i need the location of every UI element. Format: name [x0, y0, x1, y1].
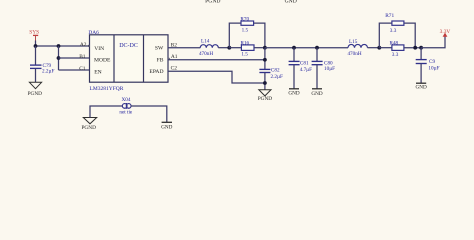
- svg-text:GND: GND: [285, 0, 297, 5]
- power port 3.3V: [440, 29, 451, 37]
- svg-text:GND: GND: [288, 91, 299, 97]
- svg-text:L15: L15: [349, 39, 358, 45]
- junction after L15: [377, 46, 381, 50]
- junction C80: [315, 46, 319, 50]
- svg-text:R48: R48: [390, 41, 399, 47]
- junction R71 drop: [413, 46, 417, 50]
- junction C9: [419, 46, 423, 50]
- svg-text:R16: R16: [241, 40, 250, 46]
- capacitor C9: [416, 48, 440, 83]
- svg-text:2.2µF: 2.2µF: [42, 69, 54, 75]
- net tie X04: [119, 97, 133, 116]
- svg-text:PGND: PGND: [258, 96, 273, 102]
- wire PGND to net tie: [90, 106, 122, 118]
- svg-text:GND: GND: [415, 85, 426, 91]
- ground PGND (under C79): [28, 82, 43, 97]
- svg-text:GND: GND: [161, 124, 172, 130]
- svg-text:B1: B1: [79, 54, 86, 60]
- svg-text:C81: C81: [300, 61, 309, 67]
- wire R71 parallel branch: [379, 23, 415, 48]
- wire R70 parallel branch: [229, 23, 265, 48]
- junction EPAD to C82 ground leg: [263, 81, 267, 85]
- resistor R16: [241, 40, 255, 57]
- ground GND (under C80): [311, 89, 322, 97]
- ground GND (under C9): [415, 83, 426, 91]
- svg-text:3.3: 3.3: [392, 52, 399, 58]
- svg-text:DC-DC: DC-DC: [119, 43, 138, 49]
- wire output node down: [264, 48, 266, 70]
- svg-text:C1: C1: [79, 66, 86, 72]
- svg-text:MODE: MODE: [94, 58, 111, 64]
- svg-text:PGND: PGND: [205, 0, 220, 5]
- svg-text:PGND: PGND: [81, 125, 96, 131]
- svg-text:470nH: 470nH: [347, 51, 361, 57]
- svg-text:FB: FB: [157, 58, 164, 64]
- wire L15 to junction: [368, 47, 380, 49]
- op-amp U1 : DC-DC converter IC box: [88, 30, 168, 92]
- junction at SYS/C79: [34, 44, 38, 48]
- svg-text:EPAD: EPAD: [149, 69, 163, 75]
- capacitor C79: [30, 46, 54, 82]
- wire FB from box to output divider: [168, 59, 265, 61]
- svg-text:2.2µF: 2.2µF: [271, 74, 283, 80]
- svg-text:4.7µF: 4.7µF: [300, 67, 312, 73]
- junction output node: [263, 46, 267, 50]
- svg-text:R70: R70: [240, 16, 249, 22]
- wire vertical tie VIN-MODE-EN: [58, 46, 60, 70]
- svg-text:net tie: net tie: [119, 110, 133, 116]
- ground PGND (net tie, left): [81, 118, 96, 132]
- wire SYS stub down to VIN rail: [35, 41, 37, 47]
- pin A2 edge mark: [88, 45, 90, 47]
- ground PGND (under C82): [258, 90, 273, 103]
- wire output rail: [265, 47, 348, 49]
- power port SYS: [29, 30, 39, 41]
- svg-text:L14: L14: [201, 39, 210, 45]
- junction FB tap: [263, 58, 267, 62]
- wire EN: [59, 69, 90, 71]
- svg-text:C2: C2: [171, 66, 178, 72]
- capacitor C81: [289, 48, 313, 89]
- svg-text:A2: A2: [80, 42, 87, 48]
- resistor R70: [240, 16, 253, 33]
- capacitor C80: [312, 48, 336, 89]
- ground GND (net tie, right): [161, 122, 172, 130]
- wire junction to R16: [229, 47, 241, 49]
- svg-text:1.5: 1.5: [241, 52, 248, 58]
- svg-text:DA6: DA6: [88, 30, 99, 36]
- svg-text:470nH: 470nH: [199, 51, 213, 57]
- junction at MODE: [57, 56, 61, 60]
- wire R16 to output junction: [254, 47, 265, 49]
- resistor R48: [390, 41, 404, 58]
- wire SW to L14: [168, 47, 200, 49]
- pin A1 edge mark: [168, 58, 170, 60]
- svg-text:1.5: 1.5: [242, 28, 249, 34]
- svg-text:R71: R71: [385, 13, 394, 19]
- wire VIN rail: [36, 45, 90, 47]
- svg-text:VIN: VIN: [94, 46, 104, 52]
- svg-text:PGND: PGND: [28, 91, 43, 97]
- wire MODE: [59, 57, 90, 59]
- svg-text:GND: GND: [311, 91, 322, 97]
- wire L14 to junction: [218, 47, 229, 49]
- svg-text:C82: C82: [271, 68, 280, 74]
- svg-text:LM3281YFQR: LM3281YFQR: [90, 86, 124, 92]
- svg-text:C9: C9: [429, 59, 435, 65]
- junction C81: [292, 46, 296, 50]
- svg-text:3.3V: 3.3V: [440, 29, 451, 35]
- wire EPAD routing: [168, 71, 265, 83]
- junction at VIN/MODE tie vertical: [57, 44, 61, 48]
- wire junction to R48: [379, 47, 392, 49]
- capacitor C82: [259, 68, 283, 90]
- wire net tie to GND: [131, 106, 167, 122]
- svg-text:EN: EN: [94, 70, 101, 76]
- ground GND (under C81): [288, 89, 299, 97]
- svg-text:10µF: 10µF: [428, 66, 439, 72]
- resistor R71: [385, 13, 404, 34]
- svg-text:3.3: 3.3: [390, 28, 397, 34]
- inductor L14: [199, 39, 218, 58]
- wire R48 to 3.3V node: [404, 47, 421, 49]
- svg-text:SW: SW: [155, 46, 164, 52]
- svg-text:X04: X04: [122, 97, 131, 103]
- junction after L14: [227, 46, 231, 50]
- svg-text:10µF: 10µF: [324, 66, 335, 72]
- inductor L15: [347, 39, 367, 57]
- wire to 3.3V power port: [421, 37, 445, 48]
